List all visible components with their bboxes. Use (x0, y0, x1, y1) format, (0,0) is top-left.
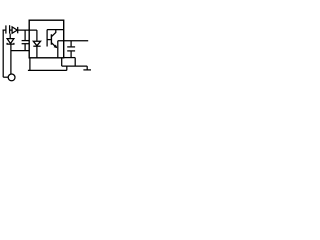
terminal T-bar (83, 69, 91, 71)
capacitor C2 top plate (22, 40, 29, 42)
capacitor C1 left plate (5, 25, 7, 33)
capacitor C3 bottom lead (70, 51, 72, 58)
capacitor C1 right plate (9, 25, 11, 33)
wire step down at far right (86, 66, 88, 69)
wire lower horizontal to step (62, 65, 87, 67)
wire collector top horizontal (47, 29, 64, 31)
wire zener to bottom rail and terminal (10, 44, 12, 74)
wire bottom rail extension right (64, 57, 76, 59)
diode D1 triangle (12, 27, 17, 33)
wire left bottom rail (11, 50, 29, 52)
wire base vertical (46, 30, 48, 47)
wire base to bar (47, 39, 51, 41)
wire drop below box left (29, 58, 31, 71)
optocoupler U1 package box (29, 20, 64, 58)
transistor Q1 bar (50, 34, 52, 44)
wire output horizontal right (open end) (58, 40, 88, 42)
capacitor C2 top lead (24, 30, 26, 40)
wire into terminal circle (3, 76, 8, 78)
transistor Q1 emitter arrowhead (54, 45, 58, 49)
wire LED cathode to box bottom (36, 46, 38, 57)
capacitor C2 bottom plate (22, 43, 29, 45)
capacitor C3 top lead (70, 41, 72, 47)
diode D2 cathode bar (7, 43, 14, 44)
wire emitter vertical to box bottom (57, 41, 59, 58)
wire long bottom horizontal (28, 69, 67, 71)
capacitor C3 bottom plate (67, 50, 75, 52)
transistor Q1 emitter diagonal (52, 43, 57, 48)
transistor Q1 collector diagonal (52, 30, 56, 37)
wire drop from rail at right (74, 58, 76, 67)
LED D3 triangle (points down) (33, 41, 40, 46)
wire C1 to diode D1 (10, 29, 13, 31)
wire short stub from rail (61, 58, 63, 67)
terminal P1 (open circle) (8, 74, 15, 81)
wire step up from long bottom wire (66, 66, 68, 70)
capacitor C3 top plate (67, 46, 75, 48)
wire zener branch upper (9, 34, 11, 39)
wire LED anode drop (36, 30, 38, 41)
diode D2 triangle (points down) (7, 39, 14, 44)
wire top horizontal to LED branch (18, 29, 37, 31)
diode D1 cathode bar (17, 27, 19, 33)
capacitor C2 bottom lead (24, 44, 26, 51)
wire left rail down (2, 30, 4, 78)
LED D3 cathode bar (33, 45, 40, 47)
wire input tick at top-left (3, 29, 6, 31)
